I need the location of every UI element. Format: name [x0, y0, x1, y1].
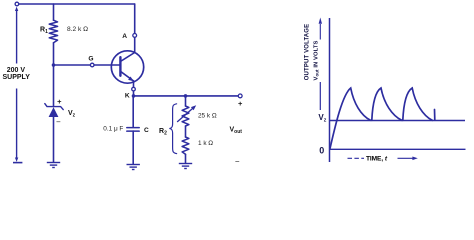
svg-text:−: −	[56, 117, 61, 126]
wire 1k to ground	[185, 154, 187, 163]
emitter arrow head	[128, 77, 134, 82]
svg-text:R1: R1	[40, 26, 48, 35]
transistor collector stroke	[120, 53, 134, 62]
wire emitter to K	[133, 81, 135, 87]
svg-text:OUTPUT VOLTAGE: OUTPUT VOLTAGE	[305, 24, 311, 81]
junction dot gate	[52, 63, 56, 67]
transistor emitter stroke	[120, 71, 133, 81]
graph TIME arrow	[398, 157, 415, 159]
svg-text:Vout IN VOLTS: Vout IN VOLTS	[313, 41, 319, 81]
graph label dash lower	[319, 82, 321, 110]
wire down to node A	[134, 4, 136, 34]
svg-text:+: +	[238, 99, 243, 108]
graph VZ level line	[330, 120, 466, 122]
svg-text:A: A	[122, 33, 127, 40]
supply terminal circle	[15, 2, 19, 6]
ground R2	[179, 164, 192, 169]
wire gate row	[55, 64, 90, 66]
wire G to base	[94, 64, 120, 66]
svg-text:K: K	[125, 92, 130, 99]
svg-text:TIME, t: TIME, t	[366, 156, 388, 163]
resistor 1k zigzag	[182, 137, 189, 154]
wire left column top	[53, 4, 55, 20]
svg-text:+: +	[57, 97, 62, 106]
transistor base bar	[119, 57, 121, 76]
transistor U1 circle	[111, 51, 143, 83]
wire top horizontal	[19, 3, 135, 5]
svg-text:0: 0	[319, 145, 324, 155]
svg-text:Vz: Vz	[318, 113, 326, 124]
supply arrow line upper	[16, 10, 18, 64]
wire zener to ground	[53, 117, 55, 162]
svg-text:Vout: Vout	[230, 127, 243, 136]
wire output row	[134, 95, 239, 97]
graph label arrow upper	[319, 24, 321, 40]
potentiometer R2 25k zigzag	[182, 106, 189, 126]
graph TIME dashes	[348, 157, 365, 159]
junction dot R2	[184, 94, 188, 98]
ground zener	[47, 163, 60, 168]
potentiometer arrow shaft	[178, 108, 194, 122]
svg-text:SUPPLY: SUPPLY	[3, 74, 31, 81]
scan edge tint left	[19, 4, 239, 164]
node A circle	[133, 34, 137, 38]
zener diode VZ triangle	[49, 107, 59, 117]
supply arrow line lower	[16, 89, 18, 159]
supply arrow head down	[15, 158, 18, 162]
wire node A to collector	[134, 37, 136, 52]
supply end bar	[13, 162, 22, 164]
resistor R1	[49, 20, 57, 43]
svg-text:1 k Ω: 1 k Ω	[198, 140, 213, 147]
node G circle	[90, 63, 94, 67]
wire junction to capacitor	[132, 96, 134, 127]
potentiometer arrow head	[191, 105, 196, 110]
svg-text:−: −	[235, 157, 240, 166]
svg-text:8.2 k Ω: 8.2 k Ω	[67, 26, 88, 33]
graph x-axis	[330, 148, 466, 150]
svg-text:25 k Ω: 25 k Ω	[198, 113, 217, 120]
supply arrow head up	[15, 7, 18, 11]
svg-text:Vz: Vz	[68, 110, 76, 119]
svg-text:0.1 μ F: 0.1 μ F	[103, 126, 123, 133]
svg-text:R2: R2	[159, 128, 167, 137]
wire K to output junction	[133, 91, 135, 96]
zener diode VZ cathode bar	[45, 104, 63, 110]
ground capacitor	[127, 165, 140, 170]
wire capacitor to ground	[132, 131, 134, 164]
node K circle	[132, 87, 136, 91]
junction dot K output	[132, 94, 136, 98]
capacitor C plates	[127, 127, 139, 129]
brace R2	[170, 104, 177, 154]
graph y-axis	[329, 18, 331, 162]
wire junction to zener	[53, 65, 55, 106]
svg-text:C: C	[144, 127, 149, 134]
output terminal circle	[238, 94, 242, 98]
waveform sawtooth	[330, 88, 435, 149]
wire R2 branch top	[185, 96, 187, 106]
wire R1 to gate junction	[53, 43, 55, 65]
svg-text:G: G	[88, 56, 93, 63]
wire between resistors	[185, 126, 187, 137]
